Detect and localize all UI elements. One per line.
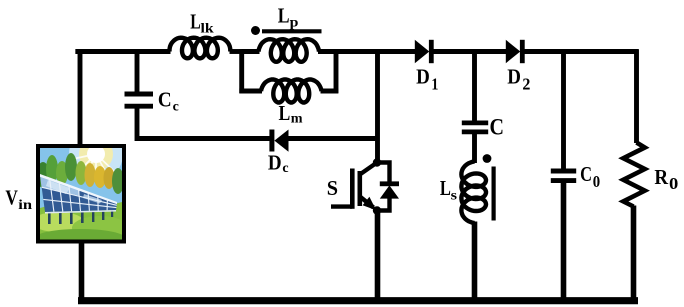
wire top rail D2 to top-right corner xyxy=(524,49,639,54)
wire switch branch lower vertical xyxy=(375,211,381,300)
svg-text:S: S xyxy=(327,176,338,200)
svg-text:D: D xyxy=(268,151,282,175)
emitter lead of S xyxy=(360,197,374,208)
svg-text:s: s xyxy=(451,188,458,203)
inductor Lp xyxy=(259,39,320,62)
wire Lm to box right xyxy=(321,89,339,94)
svg-text:D: D xyxy=(507,65,521,89)
svg-text:L: L xyxy=(190,9,201,33)
wire box left to Lm xyxy=(239,89,262,94)
coupled-inductor box left vertical xyxy=(239,49,244,93)
svg-text:m: m xyxy=(291,111,303,126)
svg-text:p: p xyxy=(290,16,299,31)
wire C0 branch top xyxy=(561,49,566,169)
svg-text:V: V xyxy=(5,186,18,210)
wire Dc to switch branch xyxy=(288,136,378,141)
wire top rail from box to D1 xyxy=(334,49,416,54)
wire Cc bottom to Dc xyxy=(137,108,270,138)
gate bar of S xyxy=(350,169,355,209)
wire middle branch rail to C xyxy=(472,49,477,121)
wire switch branch upper vertical xyxy=(375,52,380,163)
svg-text:R: R xyxy=(654,165,668,189)
polarity dot of Lp xyxy=(251,26,260,35)
coupled-inductor box right vertical xyxy=(334,49,339,93)
wire Cc top connection xyxy=(135,49,140,92)
core bar of Lp xyxy=(262,29,322,33)
svg-text:C: C xyxy=(158,87,172,111)
svg-text:L: L xyxy=(440,176,451,200)
svg-text:0: 0 xyxy=(669,174,678,193)
source Vin PV panel image xyxy=(32,127,128,247)
diode D2 xyxy=(506,40,525,63)
wire top rail left segment xyxy=(78,52,171,55)
inductor Ls xyxy=(461,162,486,224)
transistor S (IGBT with freewheeling diode) xyxy=(331,163,390,211)
emitter arrowhead of S xyxy=(363,197,377,211)
diode Dc xyxy=(269,130,288,152)
wire between Llk and coupled-inductor box xyxy=(230,49,245,54)
svg-text:L: L xyxy=(278,3,290,27)
wire left vertical from rail to Vin panel xyxy=(78,49,83,145)
svg-text:C: C xyxy=(580,162,592,186)
resistor R0 xyxy=(623,143,645,207)
wire C0 branch bottom xyxy=(561,182,567,300)
svg-text:in: in xyxy=(18,198,32,213)
capacitor Cc xyxy=(125,94,154,106)
freewheeling diode triangle xyxy=(380,185,399,198)
emitter node dot xyxy=(373,206,381,214)
core bar of Ls xyxy=(492,167,496,221)
wire R0 branch top xyxy=(634,49,639,143)
inductor Lm xyxy=(261,80,322,103)
body bar of S xyxy=(357,171,362,206)
wire top rail D1 to D2 xyxy=(433,49,507,54)
wire Ls to bottom rail xyxy=(472,222,478,301)
freewheeling diode branch lower wire xyxy=(378,198,390,211)
svg-text:C: C xyxy=(490,114,505,139)
svg-text:c: c xyxy=(173,100,179,115)
svg-text:2: 2 xyxy=(522,75,530,94)
wire Lp to box right xyxy=(318,49,336,54)
wire from Vin panel bottom to bottom rail xyxy=(79,242,85,300)
svg-text:L: L xyxy=(279,101,291,125)
wire R0 branch bottom xyxy=(631,206,637,301)
diode D1 xyxy=(415,40,434,63)
freewheeling diode branch upper wire xyxy=(377,163,390,184)
freewheeling diode cathode bar xyxy=(380,181,399,186)
svg-text:1: 1 xyxy=(431,75,438,94)
capacitor C0 xyxy=(551,171,576,181)
polarity dot of Ls xyxy=(483,154,492,163)
collector lead of S xyxy=(360,163,377,175)
wire C to Ls xyxy=(472,134,477,164)
wire bottom rail xyxy=(78,297,638,304)
svg-text:c: c xyxy=(282,161,288,176)
svg-text:lk: lk xyxy=(201,22,214,37)
svg-text:0: 0 xyxy=(593,172,600,191)
collector node dot xyxy=(373,158,381,166)
capacitor C xyxy=(462,123,488,132)
svg-text:D: D xyxy=(416,65,430,89)
gate lead of S xyxy=(331,204,352,208)
inductor Llk xyxy=(170,38,231,59)
wire box left to Lp xyxy=(242,49,260,54)
